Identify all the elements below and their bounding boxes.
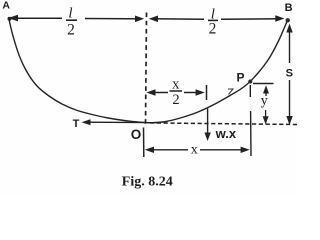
dimension l/2 left arrowhead right [135,16,144,23]
svg-text:y: y [261,94,268,109]
svg-text:O: O [131,127,142,142]
x dimension left arrowhead [145,147,154,153]
x/2 right tick [206,85,208,100]
point P dot [248,79,252,83]
T arrow line (tangent at O) [87,121,150,123]
svg-text:2: 2 [172,92,179,108]
dimension l/2 left line [11,17,141,20]
svg-text:A: A [2,0,10,12]
label l/2 right fraction bar [208,19,218,21]
y dimension top tick [253,83,274,85]
vertical line below P (dashed/solid) [249,85,252,156]
dimension S line lower [289,80,291,117]
svg-text:P: P [236,71,244,85]
centerline (dashed vertical) [146,13,147,125]
dimension l/2 left arrowhead left [8,15,18,22]
dimension S down arrowhead [286,116,292,125]
T arrowhead [82,119,91,125]
support point B dot [286,18,290,22]
label l/2 left fraction bar [66,19,77,21]
svg-text:x: x [191,142,198,157]
x dimension line [147,149,247,151]
dimension S line upper [289,30,291,63]
y dimension line [265,90,267,119]
dimension S up arrowhead [286,24,292,33]
x/2 dimension line [149,92,202,94]
datum dashed horizontal line through O level [150,123,297,125]
svg-text:2: 2 [209,20,217,37]
y dimension down arrowhead [263,116,269,124]
svg-text:Fig. 8.24: Fig. 8.24 [122,175,173,190]
x/2 right arrowhead [196,89,205,95]
w.x load arrow line [207,109,209,137]
dimension l/2 right arrowhead right [275,15,284,22]
svg-text:B: B [285,2,293,14]
tick mark on curve near P [228,89,233,95]
dimension l/2 right arrowhead left [149,16,158,23]
w.x down arrowhead [204,133,210,142]
y dimension up arrowhead [263,85,269,93]
x dimension right arrowhead [241,147,250,153]
label x/2 fraction bar [170,90,183,92]
cable curve A-O-B [9,20,287,123]
x/2 left arrowhead [146,89,155,95]
support point A dot [8,17,12,21]
svg-text:T: T [73,118,80,130]
svg-text:l: l [68,5,72,21]
svg-text:2: 2 [67,22,75,39]
svg-text:S: S [286,68,293,80]
dimension l/2 right line [152,18,281,20]
svg-text:w.x: w.x [215,126,237,141]
left tick below O [143,128,145,158]
